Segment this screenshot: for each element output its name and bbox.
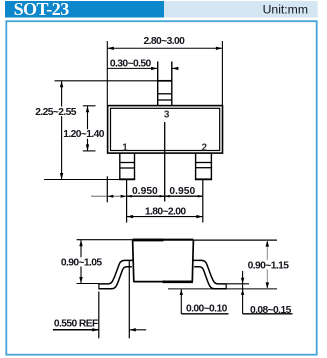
svg-text:SOT-23: SOT-23 [14,0,70,19]
body inner rectangle [111,108,220,150]
header title bar blue [5,1,164,18]
svg-text:1.20~1.40: 1.20~1.40 [63,129,105,140]
callout 0.00~0.10 leader [180,289,182,313]
chain dimension arrows [107,195,113,198]
seating plane line [168,288,277,290]
dimension 0.90~1.15 line [266,240,268,289]
dimension 0.30~0.50 line [107,67,157,69]
0.550 REF extension line right [128,261,130,338]
svg-text:0.550 REF: 0.550 REF [54,318,98,329]
left lead upper boundary [99,260,133,284]
0.550 REF extension line left [98,292,100,339]
dimension 1.20~1.40 extension lines [83,105,96,107]
right lead upper boundary [193,260,226,284]
top extension line left [77,239,133,241]
svg-text:0.90~1.05: 0.90~1.05 [61,258,103,269]
svg-text:1.80~2.00: 1.80~2.00 [145,206,187,217]
body right side [192,240,193,282]
left lead tip [98,283,100,289]
pin 2 (bottom-right lead) [195,153,212,179]
dimension 2.80~3.00 line [107,47,222,49]
svg-text:2.25~2.55: 2.25~2.55 [35,107,77,118]
right foot top extension line [226,283,249,285]
svg-text:0.90~1.15: 0.90~1.15 [248,261,290,272]
svg-text:0.950: 0.950 [169,186,195,197]
body outer rectangle [108,106,223,154]
top extent extension line [55,80,158,82]
svg-text:2.80~3.00: 2.80~3.00 [144,36,186,47]
right lead tip [225,283,227,289]
svg-text:Unit:mm: Unit:mm [263,3,308,17]
body bottom edge [133,281,193,283]
callout 0.08~0.15 leader [242,271,244,314]
body left side [133,240,134,282]
package center line [164,122,166,202]
top extension line right [193,239,277,241]
svg-text:3: 3 [164,109,170,120]
left lead lower boundary [99,267,132,289]
extension line pin1 center [126,180,128,223]
svg-text:0.08~0.15: 0.08~0.15 [250,305,292,316]
pin 1 (bottom-left lead) [119,153,135,179]
extension line body left edge [106,176,108,202]
svg-text:0.00~0.10: 0.00~0.10 [186,303,228,314]
dimension 1.80~2.00 line [127,216,203,218]
body top edge [133,239,194,241]
extension line pin2 center [202,180,204,223]
svg-text:0.30~0.50: 0.30~0.50 [110,58,152,69]
dimension 2.25~2.55 line [61,81,63,180]
svg-text:0.950: 0.950 [132,186,158,197]
dimension 1.20~1.40 line [87,106,89,151]
header unit bar light blue [164,1,318,18]
pin 3 (top lead) [157,62,172,106]
chain dimension line y=196 [91,195,127,197]
right lead lower boundary [194,267,226,289]
dimension 0.550 REF line [53,329,99,331]
svg-text:1: 1 [122,143,128,154]
bottom extent extension line [44,179,120,181]
dimension 0.90~1.05 line [80,240,82,284]
left foot extension line [77,283,99,285]
dimension 2.80~3.00 extension lines [106,41,108,106]
svg-text:2: 2 [202,142,208,153]
